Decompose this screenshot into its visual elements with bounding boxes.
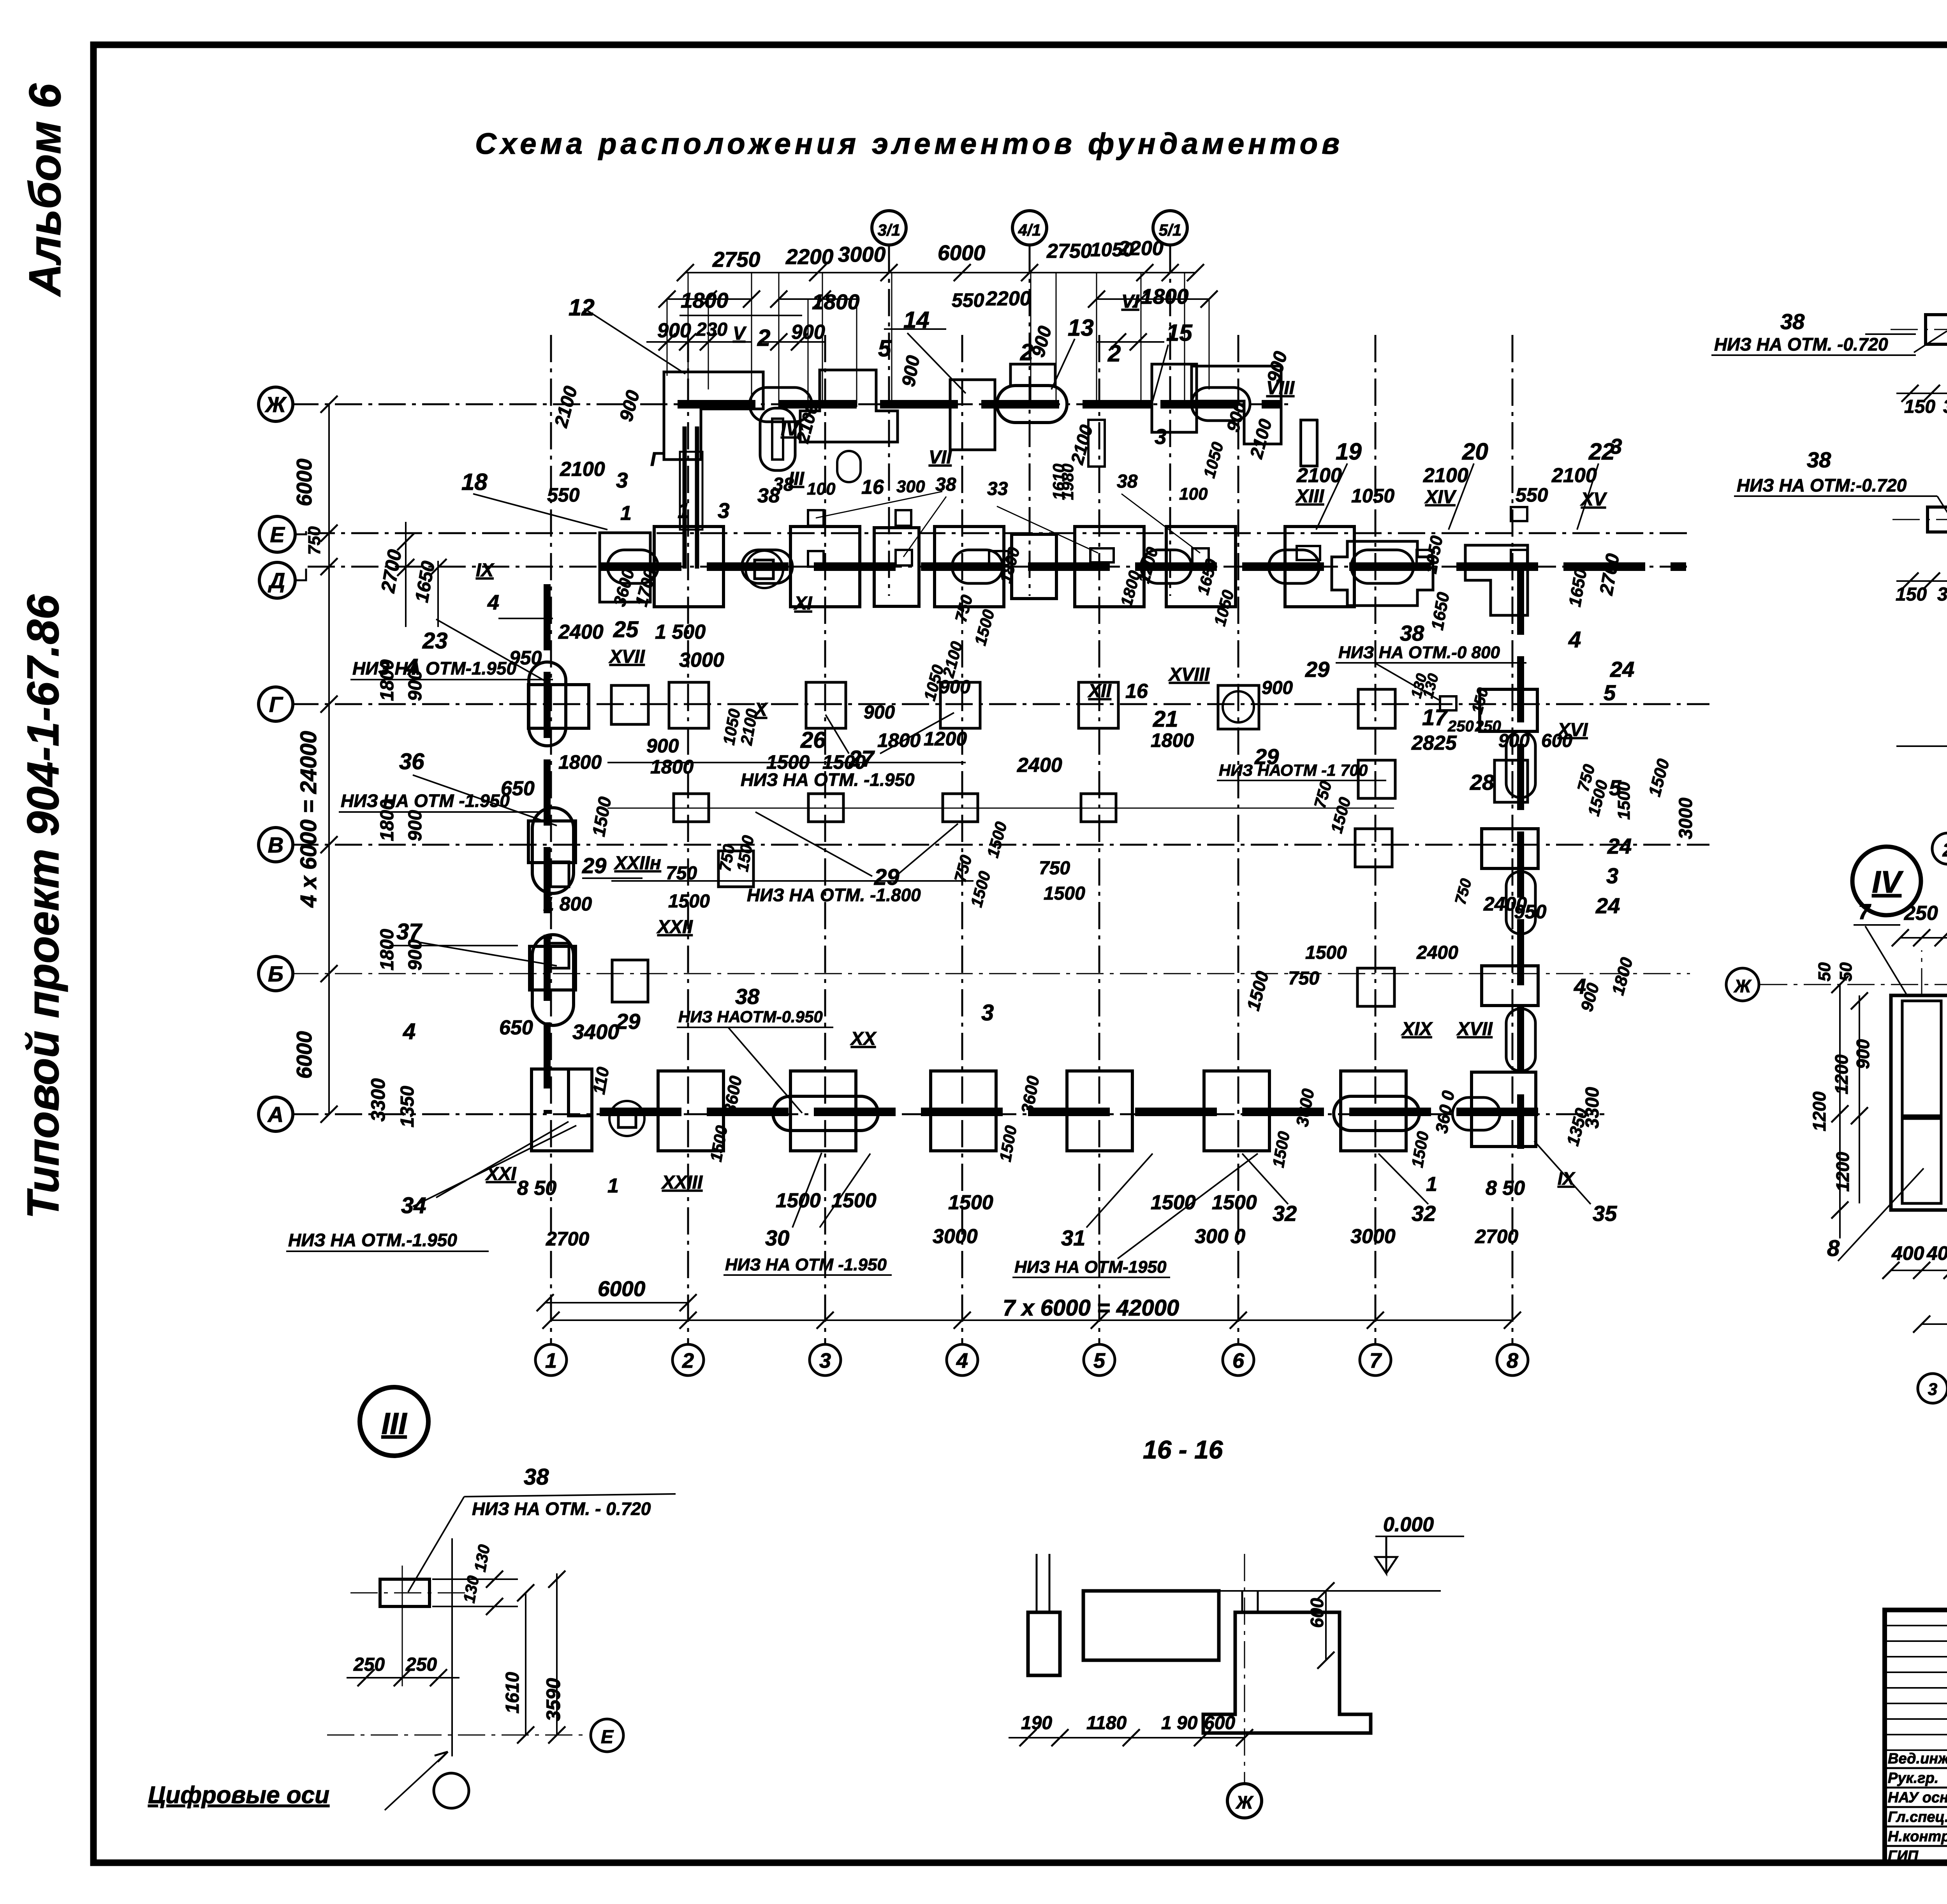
svg-text:20: 20 (1462, 439, 1488, 465)
svg-text:36: 36 (399, 749, 424, 774)
svg-text:НИЗ НА ОТМ. -0.720: НИЗ НА ОТМ. -0.720 (1714, 334, 1888, 354)
svg-text:3000: 3000 (1676, 798, 1696, 839)
signature table (1885, 1625, 1947, 1626)
svg-text:2200: 2200 (986, 287, 1031, 310)
svg-text:VII: VII (929, 447, 952, 468)
right column pills (1506, 731, 1535, 798)
svg-text:38: 38 (1400, 621, 1424, 645)
svg-text:2: 2 (1107, 340, 1121, 366)
svg-text:190: 190 (1021, 1713, 1052, 1733)
svg-text:1800: 1800 (650, 756, 694, 778)
svg-text:38: 38 (1807, 447, 1831, 472)
svg-text:650: 650 (501, 777, 535, 800)
row D big squares (654, 527, 724, 607)
svg-text:Гл.спец.: Гл.спец. (1888, 1809, 1947, 1825)
svg-text:XVIII: XVIII (1168, 664, 1210, 685)
24 rect row B (1482, 966, 1538, 1006)
svg-text:1200: 1200 (1833, 1152, 1853, 1192)
axis circles top 3/1 4/1 5/1 (872, 211, 906, 245)
svg-text:26: 26 (800, 727, 826, 753)
leader lines (584, 308, 685, 374)
svg-text:XVII: XVII (1456, 1019, 1493, 1039)
svg-text:1500: 1500 (1212, 1191, 1257, 1214)
29 right diagonal (1285, 769, 1371, 779)
svg-text:1350: 1350 (397, 1086, 418, 1127)
detail IV circle (1852, 847, 1921, 915)
svg-text:900: 900 (1262, 678, 1293, 698)
svg-text:100: 100 (807, 479, 836, 498)
svg-text:XXII: XXII (656, 917, 693, 937)
svg-text:250: 250 (1904, 902, 1938, 925)
svg-text:1980: 1980 (1058, 464, 1077, 500)
svg-text:2100: 2100 (1551, 464, 1597, 487)
svg-text:1: 1 (620, 502, 632, 525)
row A leader diagonals (792, 1153, 822, 1228)
svg-text:Н.контр: Н.контр (1888, 1828, 1947, 1845)
svg-text:33: 33 (987, 479, 1008, 499)
svg-text:6000: 6000 (292, 1031, 316, 1079)
row G squares (669, 682, 709, 728)
row Zh L right (1192, 366, 1281, 444)
svg-text:3: 3 (616, 468, 628, 492)
svg-text:1500: 1500 (948, 1191, 993, 1214)
left dim chain (328, 404, 330, 1114)
svg-text:Д: Д (268, 568, 285, 593)
svg-text:3000: 3000 (933, 1225, 978, 1248)
svg-text:Схема расположения элементов: Схема расположения элементов фундаментов (475, 127, 1343, 160)
svg-text:6: 6 (1232, 1349, 1245, 1372)
svg-text:2750: 2750 (1046, 240, 1092, 262)
svg-text:550: 550 (547, 484, 580, 506)
svg-text:6000: 6000 (938, 241, 986, 265)
svg-text:Г: Г (650, 448, 663, 470)
row A big squares (658, 1071, 724, 1151)
detail IV bottom circles (1918, 1374, 1947, 1403)
svg-text:НИЗ НА ОТМ.-0 800: НИЗ НА ОТМ.-0 800 (1338, 643, 1500, 662)
svg-text:18: 18 (461, 469, 488, 495)
svg-text:6000: 6000 (292, 458, 316, 506)
svg-text:3000: 3000 (1350, 1225, 1396, 1248)
mid VB squares (612, 960, 648, 1002)
svg-text:30: 30 (765, 1226, 789, 1250)
detail IV dim line top (1900, 937, 1947, 939)
svg-text:16: 16 (1125, 680, 1148, 703)
row Zh rect right (1152, 364, 1197, 432)
left column pill plates (528, 685, 589, 728)
row Zh pill below T (837, 451, 861, 482)
svg-text:1180: 1180 (1086, 1713, 1127, 1733)
svg-text:IV: IV (1872, 865, 1903, 899)
svg-text:2750: 2750 (712, 247, 760, 271)
row D heavy bar (600, 562, 1686, 571)
svg-text:3000: 3000 (679, 649, 724, 671)
row A capsules (773, 1096, 878, 1131)
top chain vertical drop lines (688, 273, 689, 407)
svg-text:Ж: Ж (1236, 1792, 1254, 1812)
svg-text:1500: 1500 (1151, 1191, 1196, 1214)
row Zh slot rect far right (1301, 420, 1317, 466)
svg-text:1 500: 1 500 (655, 621, 706, 643)
svg-text:1 90: 1 90 (1161, 1713, 1198, 1733)
svg-text:2400: 2400 (1017, 754, 1062, 777)
svg-text:600: 600 (1204, 1713, 1235, 1733)
29 center diagonals (755, 812, 872, 876)
svg-text:650: 650 (499, 1016, 533, 1039)
svg-text:2700: 2700 (546, 1228, 589, 1250)
row Zh T element (800, 370, 898, 442)
svg-text:1500: 1500 (822, 751, 866, 773)
svg-text:300 0: 300 0 (1195, 1225, 1245, 1248)
svg-text:750: 750 (1039, 858, 1070, 879)
svg-text:2: 2 (1020, 339, 1033, 365)
detail III dims 130 (432, 1578, 518, 1580)
svg-text:150: 150 (1896, 584, 1927, 605)
svg-text:38: 38 (524, 1464, 549, 1490)
24-5 rect right (1480, 689, 1537, 731)
svg-text:250: 250 (353, 1654, 385, 1675)
svg-text:32: 32 (1412, 1201, 1436, 1226)
svg-text:25: 25 (613, 617, 639, 642)
svg-text:19: 19 (1336, 439, 1362, 465)
element I heavy bars (683, 426, 687, 569)
svg-text:2200: 2200 (785, 245, 834, 269)
svg-text:50: 50 (1815, 962, 1834, 981)
svg-text:4: 4 (487, 591, 499, 614)
svg-text:37: 37 (396, 919, 422, 944)
detail I bottom circles 2-3 (1932, 833, 1947, 864)
svg-text:8: 8 (1827, 1236, 1840, 1261)
svg-text:XIII: XIII (1295, 486, 1325, 507)
svg-text:XI: XI (793, 593, 813, 614)
svg-text:2400: 2400 (1416, 942, 1458, 963)
svg-text:Цифровые оси: Цифровые оси (148, 1782, 329, 1809)
mid right squares (1358, 760, 1395, 798)
svg-text:3: 3 (1606, 863, 1618, 888)
svg-text:1200: 1200 (924, 728, 967, 750)
main title block frame (1885, 1610, 1947, 1863)
svg-text:14: 14 (903, 307, 929, 333)
detail III axis E (327, 1735, 589, 1736)
svg-text:НИЗ НА ОТМ:-0.720: НИЗ НА ОТМ:-0.720 (1737, 475, 1907, 495)
svg-text:2700: 2700 (1475, 1226, 1518, 1247)
svg-text:750: 750 (1288, 968, 1319, 989)
svg-text:1: 1 (545, 1349, 557, 1372)
svg-text:15: 15 (1166, 320, 1193, 346)
svg-text:IX: IX (476, 560, 495, 581)
svg-text:750: 750 (666, 863, 697, 884)
svg-text:1610: 1610 (502, 1672, 523, 1714)
svg-text:3590: 3590 (542, 1678, 564, 1721)
svg-text:1500: 1500 (776, 1189, 821, 1212)
svg-text:13: 13 (1068, 315, 1094, 341)
svg-text:3: 3 (1155, 424, 1167, 449)
row Zh capsule IV with slot (760, 408, 795, 470)
svg-text:350: 350 (1943, 396, 1947, 417)
row Zh pill 1 (750, 387, 812, 422)
row Zh slot rect 3 (1301, 420, 1317, 466)
top dim chains (685, 272, 1195, 273)
svg-text:НИЗ НА ОТМ-1950: НИЗ НА ОТМ-1950 (1014, 1258, 1167, 1277)
svg-text:4: 4 (403, 1019, 415, 1044)
svg-text:2: 2 (682, 1349, 694, 1372)
svg-text:900: 900 (646, 735, 679, 757)
27 diagonals (826, 715, 849, 754)
row Zh pill right (1192, 387, 1250, 421)
svg-text:1500: 1500 (1044, 883, 1085, 904)
svg-text:38: 38 (1117, 471, 1138, 492)
svg-text:1800: 1800 (377, 929, 398, 970)
svg-text:3: 3 (1610, 434, 1622, 458)
section mid rect (1083, 1591, 1219, 1660)
38 tiny rect (1440, 696, 1456, 710)
section axis Zh circle (1227, 1784, 1262, 1818)
svg-text:34: 34 (401, 1193, 426, 1218)
svg-text:3400: 3400 (572, 1020, 619, 1044)
svg-text:7: 7 (1370, 1349, 1382, 1372)
right column heavy bar (1517, 569, 1524, 1149)
svg-text:31: 31 (1061, 1226, 1085, 1250)
row D left L plate (600, 533, 650, 602)
row A left L (532, 1069, 592, 1151)
svg-text:1: 1 (1426, 1173, 1437, 1196)
svg-text:5: 5 (878, 335, 892, 361)
svg-text:ГИП: ГИП (1888, 1848, 1919, 1864)
row D capsules (607, 550, 658, 583)
svg-text:28: 28 (1470, 770, 1495, 794)
detail I rect bottom (1928, 507, 1947, 532)
horizontal axis lines (291, 403, 1293, 405)
svg-text:550: 550 (1516, 484, 1548, 506)
svg-text:1050: 1050 (1351, 485, 1394, 507)
svg-text:24: 24 (1610, 657, 1634, 682)
svg-text:Альбом 6: Альбом 6 (20, 83, 70, 297)
svg-text:900: 900 (1853, 1039, 1873, 1069)
svg-text:750: 750 (305, 526, 324, 555)
svg-text:НИЗ НА ОТМ-1.950: НИЗ НА ОТМ-1.950 (352, 658, 516, 678)
G right squares (1358, 689, 1395, 728)
svg-text:1200: 1200 (1831, 1054, 1852, 1094)
svg-text:5: 5 (1604, 680, 1616, 705)
svg-text:29: 29 (582, 853, 606, 878)
svg-text:3/1: 3/1 (878, 221, 900, 239)
svg-text:Е: Е (601, 1727, 614, 1747)
svg-text:VI: VI (1121, 291, 1140, 312)
detail IV axis Zh (1726, 968, 1759, 1001)
svg-text:29: 29 (1305, 657, 1329, 682)
svg-text:38: 38 (1780, 309, 1805, 334)
svg-text:V: V (733, 323, 747, 344)
svg-text:400: 400 (1926, 1242, 1947, 1264)
svg-text:XXIII: XXIII (661, 1172, 703, 1193)
svg-text:Е: Е (270, 522, 285, 547)
28 rect (1495, 760, 1528, 802)
svg-text:2: 2 (757, 325, 770, 351)
svg-text:3: 3 (1928, 1380, 1937, 1399)
svg-text:НИЗ НА ОТМ. - 0.720: НИЗ НА ОТМ. - 0.720 (472, 1499, 651, 1519)
section stepped pier (1203, 1612, 1371, 1733)
row Zh slot rect 2 (1088, 420, 1105, 467)
svg-text:1500: 1500 (1614, 782, 1634, 820)
svg-text:НИЗ НА ОТМ -1.950: НИЗ НА ОТМ -1.950 (725, 1255, 887, 1274)
svg-text:300: 300 (896, 477, 925, 496)
section zero level (1219, 1590, 1441, 1592)
row Zh pill 4/1 (997, 386, 1067, 423)
row V squares (718, 851, 753, 887)
tsifrovye osi circle (434, 1773, 469, 1808)
row A heavy bar (600, 1108, 1538, 1116)
detail III rect (380, 1579, 430, 1606)
svg-text:2400: 2400 (558, 621, 604, 643)
mid row squares (674, 794, 709, 822)
svg-text:4: 4 (405, 654, 418, 680)
svg-text:1500: 1500 (766, 751, 810, 773)
svg-text:38: 38 (773, 474, 794, 495)
svg-text:НИЗ НАОТМ-0.950: НИЗ НАОТМ-0.950 (678, 1007, 823, 1026)
svg-text:24: 24 (1595, 893, 1620, 918)
svg-text:Ж: Ж (1734, 976, 1752, 996)
svg-text:2825: 2825 (1411, 732, 1457, 754)
svg-text:8 50: 8 50 (1486, 1177, 1525, 1199)
E axis small squares (808, 510, 824, 526)
svg-text:5: 5 (1093, 1349, 1106, 1372)
row D cross element right1 (1332, 541, 1433, 606)
section bottom dims (1009, 1737, 1245, 1738)
svg-text:1800: 1800 (558, 751, 602, 773)
svg-text:3: 3 (819, 1349, 831, 1372)
svg-text:5/1: 5/1 (1159, 221, 1181, 239)
svg-text:24: 24 (1607, 834, 1632, 858)
section left narrow rect (1028, 1612, 1060, 1675)
tiny circled square row A (609, 1101, 644, 1136)
svg-text:XVII: XVII (608, 646, 645, 667)
detail IV inner rects (1902, 1001, 1941, 1116)
svg-text:А: А (267, 1102, 283, 1127)
svg-text:XX: XX (850, 1029, 877, 1049)
svg-text:НИЗ НА ОТМ -1.950: НИЗ НА ОТМ -1.950 (341, 791, 510, 811)
row D L element right (1465, 545, 1528, 615)
svg-text:29: 29 (616, 1009, 640, 1034)
mid row line (607, 808, 1394, 809)
svg-text:1500: 1500 (1305, 942, 1347, 963)
svg-text:23: 23 (422, 628, 448, 653)
svg-text:8 50: 8 50 (517, 1177, 556, 1199)
svg-text:400: 400 (1891, 1242, 1924, 1264)
svg-text:16 - 16: 16 - 16 (1143, 1435, 1223, 1464)
bottom dim chain (551, 1319, 1512, 1321)
small connect leaders E axis (816, 491, 942, 518)
svg-text:4 х 6000 = 24000: 4 х 6000 = 24000 (296, 731, 321, 908)
axis circles left (259, 387, 293, 421)
svg-text:3: 3 (981, 1000, 994, 1025)
row Zh heavy bar (678, 400, 1153, 409)
svg-text:1800: 1800 (877, 729, 921, 751)
svg-text:Г: Г (269, 692, 283, 717)
section centerline (1244, 1554, 1245, 1784)
svg-text:1200: 1200 (1809, 1091, 1829, 1131)
circled square 38 (746, 551, 783, 588)
left small square G-B (611, 685, 648, 724)
detail I rect top (1926, 315, 1947, 344)
svg-text:2100: 2100 (1296, 464, 1342, 487)
svg-text:600: 600 (1307, 1598, 1327, 1628)
left column heavy bar (544, 584, 551, 1114)
svg-text:12: 12 (569, 294, 595, 321)
top second chain lines (667, 298, 752, 300)
svg-text:Типовой проект 904-1-67.86: Типовой проект 904-1-67.86 (18, 594, 68, 1219)
row Zh rect 14 (950, 380, 995, 450)
row D small tall rect (874, 528, 919, 606)
axis circles bottom (535, 1344, 567, 1376)
svg-text:7: 7 (1858, 899, 1871, 924)
svg-text:100: 100 (1179, 484, 1208, 504)
svg-text:Ж: Ж (264, 392, 287, 417)
svg-text:21: 21 (1153, 706, 1178, 732)
vertical axis lines (550, 335, 552, 1344)
svg-text:38: 38 (735, 984, 760, 1009)
svg-text:XIX: XIX (1401, 1019, 1433, 1039)
svg-text:3: 3 (718, 498, 730, 523)
svg-text:600: 600 (1541, 731, 1572, 751)
svg-text:2200: 2200 (1118, 237, 1164, 260)
row D mid rect (1012, 534, 1056, 599)
row Zh L-plate left (664, 372, 763, 460)
left column pills (529, 662, 566, 746)
svg-text:1500: 1500 (668, 891, 710, 912)
svg-text:НИЗ НА ОТМ.-1.950: НИЗ НА ОТМ.-1.950 (288, 1230, 457, 1250)
svg-text:3300: 3300 (367, 1078, 389, 1122)
svg-text:550: 550 (952, 289, 984, 311)
svg-text:150: 150 (1904, 396, 1935, 417)
svg-text:2100: 2100 (1423, 464, 1468, 487)
svg-text:2: 2 (1942, 840, 1947, 861)
svg-text:IX: IX (1558, 1168, 1576, 1189)
svg-text:1800: 1800 (1141, 284, 1189, 308)
svg-text:НАУ осн: НАУ осн (1888, 1790, 1947, 1806)
svg-text:Вед.инж: Вед.инж (1888, 1751, 1947, 1767)
svg-text:XII: XII (1087, 681, 1112, 701)
svg-text:НИЗ НАОТМ -1 700: НИЗ НАОТМ -1 700 (1219, 761, 1368, 779)
svg-text:6000: 6000 (598, 1277, 646, 1301)
svg-text:900: 900 (405, 810, 426, 841)
svg-text:2100: 2100 (560, 458, 605, 481)
svg-text:4: 4 (956, 1349, 968, 1372)
svg-text:900: 900 (864, 702, 895, 723)
svg-text:XXIIн: XXIIн (613, 853, 661, 874)
svg-text:1: 1 (607, 1175, 619, 1197)
svg-text:4/1: 4/1 (1018, 221, 1041, 239)
svg-text:16: 16 (861, 476, 884, 498)
svg-text:XIV: XIV (1424, 487, 1457, 507)
svg-text:В: В (268, 833, 283, 857)
detail III circle (360, 1387, 428, 1456)
svg-text:230: 230 (696, 319, 727, 340)
svg-text:0.000: 0.000 (1383, 1513, 1434, 1536)
detail I axis E (1896, 745, 1947, 747)
svg-text:35: 35 (1593, 1201, 1617, 1226)
svg-text:8: 8 (1507, 1349, 1518, 1372)
svg-text:1800: 1800 (1151, 729, 1194, 751)
svg-text:Рук.гр.: Рук.гр. (1888, 1770, 1938, 1786)
svg-text:7 х 6000 = 42000: 7 х 6000 = 42000 (1003, 1295, 1179, 1321)
detail III vertical line (451, 1538, 453, 1756)
svg-text:17: 17 (1422, 705, 1448, 730)
svg-text:32: 32 (1273, 1201, 1297, 1226)
detail IV main rect (1891, 995, 1947, 1210)
svg-text:900: 900 (657, 319, 691, 342)
svg-text:Б: Б (268, 962, 283, 986)
svg-text:4: 4 (1568, 627, 1581, 652)
svg-text:3 50: 3 50 (1937, 584, 1947, 605)
